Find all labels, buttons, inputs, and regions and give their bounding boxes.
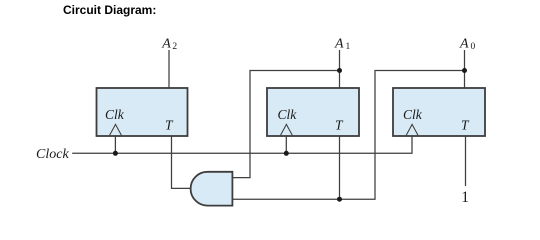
wire: A1 feedback horizontal to AND gate branch [232,71,339,178]
clock edge triangle of U2 [110,124,122,135]
svg-text:Clk: Clk [278,107,298,122]
svg-text:A: A [459,37,469,52]
junction dot on A1 line [337,68,342,73]
wire: AND gate output up to T input of U2 [172,136,193,188]
svg-text:Clk: Clk [105,107,125,122]
wire: A0 feedback horizontal down to T of U1 and AND gate input [232,71,464,200]
title [63,3,156,17]
wire: A2 output line from flip-flop U2 top to label [168,50,170,88]
svg-text:1: 1 [346,42,351,52]
junction dot clock to U2 [113,151,118,156]
svg-text:A: A [161,37,171,52]
junction dot clock to U1 [284,151,289,156]
clock edge triangle of U1 [281,124,293,135]
wire: clock stub to Clk of U2 [114,136,116,153]
svg-text:A: A [334,37,344,52]
svg-text:1: 1 [461,189,469,206]
svg-text:Clock: Clock [36,147,69,162]
flip-flop U2 (A2) body [97,88,188,136]
clock edge triangle of U0 [406,124,418,135]
junction dot on A0 line [462,68,467,73]
flip-flop U1 (A1) body [267,88,359,136]
wire: clock stub to Clk of U1 [285,136,287,153]
svg-text:2: 2 [172,42,177,52]
flip-flop U0 (A0) body [393,88,485,136]
wire: T input of U1 down to A0 feedback line [339,136,341,199]
wire: A0 output line from flip-flop U0 top to label [464,50,466,88]
junction dot T of U1 on A0 line [337,197,342,202]
svg-text:Clk: Clk [403,107,423,122]
wire: A1 output line from flip-flop U1 top to label [339,50,341,88]
svg-text:0: 0 [471,42,476,52]
wire: T input of U0 down to constant 1 [465,136,467,186]
AND gate G1 [191,172,233,206]
wire: Clock distribution line [72,136,412,153]
